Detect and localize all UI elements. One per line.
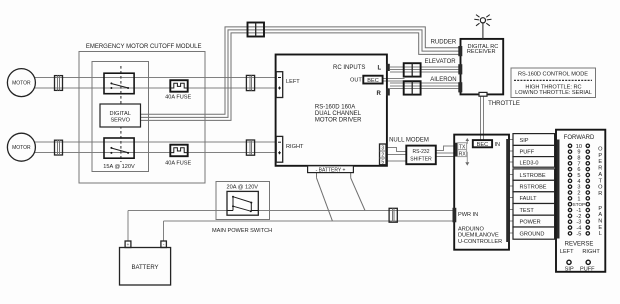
svg-text:+: + <box>127 242 130 247</box>
svg-text:LED3-0: LED3-0 <box>520 160 539 166</box>
svg-text:A: A <box>598 172 602 178</box>
svg-text:L: L <box>599 231 602 237</box>
svg-text:LOW/NO THROTTLE: SERIAL: LOW/NO THROTTLE: SERIAL <box>515 90 592 96</box>
svg-text:AILERON: AILERON <box>430 77 456 83</box>
svg-text:RIGHT: RIGHT <box>286 144 304 150</box>
svg-text:O: O <box>598 185 603 191</box>
svg-text:T: T <box>599 178 603 184</box>
svg-text:RS-160D CONTROL MODE: RS-160D CONTROL MODE <box>518 72 588 78</box>
svg-text:BEC: BEC <box>367 78 379 84</box>
svg-text:RUDDER: RUDDER <box>431 39 457 45</box>
svg-text:POWER: POWER <box>520 220 541 226</box>
svg-text:NULL MODEM: NULL MODEM <box>389 138 429 144</box>
svg-text:U-CONTROLLER: U-CONTROLLER <box>458 239 502 245</box>
svg-text:MOTOR: MOTOR <box>12 145 31 151</box>
svg-text:40A FUSE: 40A FUSE <box>165 161 191 167</box>
svg-text:BATTERY: BATTERY <box>131 265 158 271</box>
svg-text:A: A <box>598 212 602 218</box>
svg-text:15A @ 120V: 15A @ 120V <box>103 164 135 170</box>
svg-text:FAULT: FAULT <box>520 196 538 202</box>
svg-text:40A FUSE: 40A FUSE <box>165 95 191 101</box>
svg-text:P: P <box>598 206 602 212</box>
svg-text:LEFT: LEFT <box>560 249 574 255</box>
svg-text:MOTOR: MOTOR <box>12 81 31 87</box>
svg-text:RX: RX <box>459 151 467 157</box>
svg-text:SIP: SIP <box>520 138 529 144</box>
svg-text:5: 5 <box>381 159 384 165</box>
svg-text:PUFF: PUFF <box>520 149 535 155</box>
svg-text:E: E <box>598 159 602 165</box>
svg-text:TEST: TEST <box>520 208 535 214</box>
svg-text:BEC: BEC <box>477 142 489 148</box>
svg-text:LSTROBE: LSTROBE <box>520 173 546 179</box>
svg-text:RC INPUTS: RC INPUTS <box>333 65 365 71</box>
svg-text:TX: TX <box>459 144 466 150</box>
svg-text:N: N <box>598 218 602 224</box>
svg-text:ARDUINO: ARDUINO <box>458 226 484 232</box>
svg-text:LEFT: LEFT <box>286 79 300 85</box>
svg-text:SERVO: SERVO <box>110 117 130 123</box>
svg-text:DIGITAL: DIGITAL <box>110 111 131 117</box>
svg-text:20A @ 120V: 20A @ 120V <box>227 185 259 191</box>
svg-text:OUT: OUT <box>350 78 362 84</box>
svg-text:E: E <box>598 225 602 231</box>
svg-text:RECEIVER: RECEIVER <box>467 49 496 55</box>
svg-text:IN: IN <box>495 142 501 148</box>
svg-text:EMERGENCY MOTOR CUTOFF MODULE: EMERGENCY MOTOR CUTOFF MODULE <box>86 44 202 50</box>
svg-text:DUEMILANOVE: DUEMILANOVE <box>458 233 499 239</box>
svg-text:MAIN POWER SWITCH: MAIN POWER SWITCH <box>212 228 272 234</box>
svg-text:O: O <box>598 146 603 152</box>
svg-text:ELEVATOR: ELEVATOR <box>425 59 457 65</box>
svg-text:RIGHT: RIGHT <box>582 249 600 255</box>
svg-text:P: P <box>598 153 602 159</box>
svg-text:MOTOR DRIVER: MOTOR DRIVER <box>315 117 362 123</box>
svg-text:SHIFTER: SHIFTER <box>410 156 432 162</box>
svg-text:STOP: STOP <box>573 202 585 207</box>
svg-text:FORWARD: FORWARD <box>564 135 595 141</box>
svg-text:R: R <box>377 91 382 97</box>
svg-text:R: R <box>598 191 602 197</box>
svg-text:RS-232: RS-232 <box>413 149 430 155</box>
svg-text:PWR IN: PWR IN <box>458 212 478 218</box>
svg-text:RS-160D 160A: RS-160D 160A <box>315 104 355 110</box>
svg-text:-5: -5 <box>576 231 581 237</box>
svg-text:R: R <box>598 166 602 172</box>
svg-text:PUFF: PUFF <box>580 266 595 272</box>
svg-text:- BATTERY +: - BATTERY + <box>316 167 346 173</box>
svg-text:RSTROBE: RSTROBE <box>520 185 547 191</box>
svg-text:3: 3 <box>381 146 384 152</box>
svg-text:GROUND: GROUND <box>520 232 545 238</box>
svg-text:DUAL CHANNEL: DUAL CHANNEL <box>315 111 362 117</box>
svg-text:SIP: SIP <box>565 266 574 272</box>
svg-text:THROTTLE: THROTTLE <box>488 101 520 107</box>
svg-text:2: 2 <box>381 153 384 159</box>
svg-text:L: L <box>378 65 382 71</box>
svg-text:REVERSE: REVERSE <box>565 241 594 247</box>
